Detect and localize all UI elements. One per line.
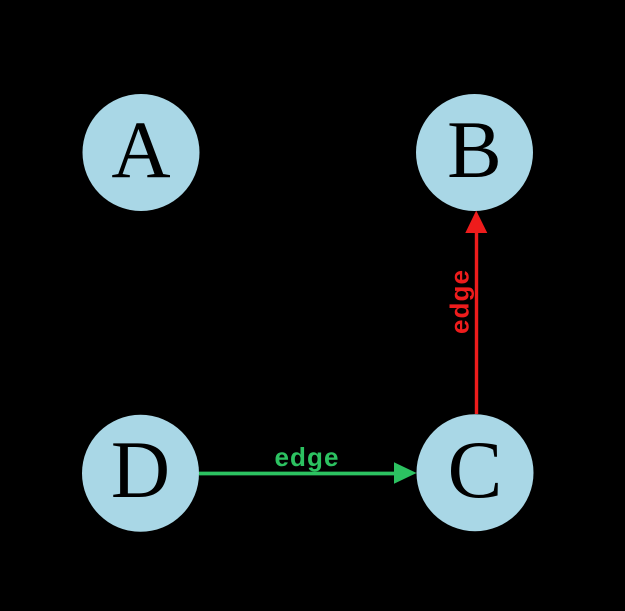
svg-text:vertex: vertex <box>432 58 515 88</box>
svg-text:D: D <box>111 424 170 515</box>
svg-text:edge: edge <box>109 268 139 333</box>
wire edge A-C (black, invisible on black) <box>183 192 435 431</box>
wire edge C-B (red arrow) <box>465 211 487 415</box>
svg-text:A: A <box>111 104 170 195</box>
node A <box>83 94 200 211</box>
svg-text:vertex: vertex <box>95 58 178 88</box>
svg-text:C: C <box>448 424 503 515</box>
svg-text:vertex: vertex <box>428 536 511 566</box>
svg-text:B: B <box>447 104 502 195</box>
svg-text:edge: edge <box>274 121 339 151</box>
node B <box>416 94 533 211</box>
svg-text:vertex: vertex <box>98 536 181 566</box>
svg-text:edge: edge <box>274 442 339 472</box>
node C <box>417 414 534 531</box>
wire edge D-C (green arrow) <box>199 462 417 483</box>
node D <box>82 415 199 532</box>
svg-text:edge: edge <box>445 269 475 334</box>
wire edge A-D (black, invisible on black) <box>131 211 152 415</box>
wire edge A-B (black, invisible on black) <box>200 142 416 163</box>
